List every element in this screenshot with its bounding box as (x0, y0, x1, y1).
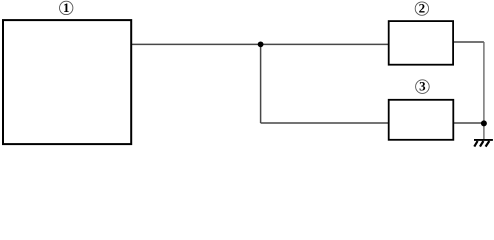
svg-text:3: 3 (419, 79, 426, 94)
svg-text:1: 1 (63, 0, 70, 15)
svg-text:2: 2 (419, 1, 426, 16)
